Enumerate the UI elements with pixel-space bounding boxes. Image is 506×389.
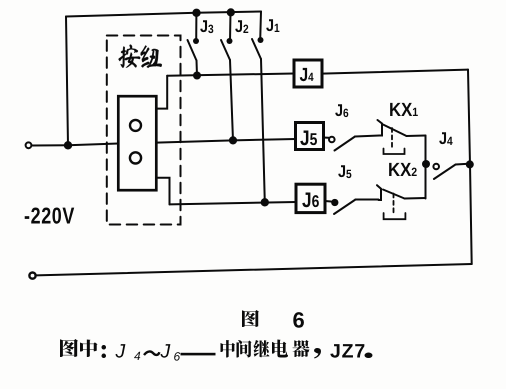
- right rail vertical: [468, 70, 472, 264]
- contact J5 blade: [334, 200, 356, 215]
- wire J4 coil to right rail: [322, 70, 468, 74]
- node J3 row1 junction: [193, 72, 201, 80]
- text figure-number 图: [242, 310, 259, 327]
- button circle 1: [130, 120, 141, 131]
- svg-text:6: 6: [293, 308, 305, 333]
- node left junction: [64, 141, 72, 149]
- svg-text:KX2: KX2: [388, 160, 417, 181]
- wire left terminal to junction: [32, 144, 68, 146]
- wire button to row1 (step up): [156, 76, 167, 109]
- wire J1 vertical to row3: [261, 59, 265, 202]
- top bus wire: [66, 12, 261, 17]
- wire J1 upper stub (corner of top bus): [259, 12, 262, 41]
- svg-text:J4: J4: [439, 129, 453, 148]
- contact J6 terminal circle: [329, 137, 335, 143]
- contact J5 terminal circle: [332, 200, 338, 206]
- wire J6 contact to KX1: [355, 136, 380, 137]
- KX2 actuator bracket: [384, 213, 406, 219]
- wire row1 bus: [167, 74, 294, 76]
- svg-text:J6: J6: [302, 189, 319, 212]
- svg-text:JZ7: JZ7: [330, 341, 366, 363]
- left vertical wire: [66, 17, 68, 146]
- node mid tap: [422, 160, 430, 168]
- text caption 中: [80, 340, 97, 358]
- text caption 中 2: [221, 340, 235, 358]
- KX2 actuator dashed link: [393, 194, 395, 213]
- svg-text:J6: J6: [335, 101, 349, 120]
- KX1 actuator bracket: [384, 149, 405, 155]
- node J3 top: [192, 9, 200, 17]
- svg-text:6: 6: [174, 350, 181, 364]
- node J2 row2 junction: [229, 136, 237, 144]
- text caption 器: [293, 340, 310, 357]
- text caption period: [364, 353, 372, 358]
- wire J6 coil stub: [325, 200, 331, 203]
- wire KX1 to mid vertical: [407, 135, 426, 138]
- text caption colon: [101, 345, 106, 358]
- contact J1 blade: [252, 39, 261, 59]
- limit switch KX2 blade: [383, 190, 405, 199]
- svg-text:J5: J5: [300, 127, 317, 150]
- node right rail tap: [466, 160, 474, 168]
- contact J2 blade: [221, 40, 230, 60]
- contact J4 terminal circle: [433, 164, 439, 170]
- text caption 继: [253, 340, 269, 357]
- wire KX2 to mid vertical: [405, 197, 426, 200]
- svg-text:J: J: [160, 341, 171, 363]
- wire row2 button to J5: [156, 139, 295, 143]
- wire J3 lower stub: [196, 61, 199, 76]
- svg-text:KX1: KX1: [389, 100, 418, 121]
- contact J2 dot: [227, 38, 233, 44]
- text caption comma: [314, 348, 321, 358]
- svg-text:J5: J5: [338, 162, 352, 181]
- limit switch KX1 blade: [383, 125, 407, 137]
- svg-text:J4: J4: [300, 65, 314, 86]
- wire J2 upper stub: [229, 12, 232, 41]
- limit switch KX1 fixed arm: [378, 120, 383, 136]
- svg-text:J3: J3: [200, 17, 214, 36]
- svg-text:J1: J1: [266, 16, 280, 35]
- svg-text:4: 4: [134, 349, 141, 363]
- wire J2 vertical to row2: [230, 60, 233, 140]
- button circle 2: [130, 152, 141, 163]
- contact J6 blade: [335, 137, 356, 151]
- contact J3 blade: [188, 40, 197, 61]
- relay coil J5 box: [296, 123, 324, 150]
- wire button to row3 (step down): [157, 178, 170, 205]
- relay coil J4 box: [294, 60, 322, 87]
- text label 纽(push-button): [141, 45, 162, 67]
- left input terminal: [26, 142, 32, 148]
- caption tilde: [144, 351, 159, 355]
- text caption 图: [60, 339, 78, 357]
- bottom rail wire: [36, 264, 472, 275]
- limit switch KX2 fixed arm: [377, 185, 381, 200]
- svg-text:J2: J2: [235, 17, 249, 36]
- relay coil J6 box: [296, 184, 325, 212]
- node J1 row3 junction: [261, 198, 269, 206]
- svg-text:-220V: -220V: [24, 203, 75, 229]
- wire junction to button box: [68, 144, 118, 146]
- KX1 actuator dashed link: [391, 128, 393, 148]
- contact J1 dot: [258, 37, 264, 43]
- svg-text:J: J: [115, 341, 126, 363]
- push-button body SB: [118, 96, 156, 190]
- text caption 间: [237, 340, 252, 357]
- wire J5 contact to KX2: [356, 199, 379, 201]
- wire row3 to J6: [170, 202, 297, 204]
- text label 按(push-button): [119, 45, 141, 68]
- contact J4 blade: [434, 164, 469, 179]
- text caption 电: [272, 340, 288, 358]
- bottom rail terminal: [29, 273, 35, 279]
- wire J5 coil stub: [323, 137, 329, 139]
- push-button dashed enclosure: [107, 36, 181, 225]
- wire J3 upper stub: [195, 13, 197, 41]
- mid vertical wire: [425, 136, 427, 199]
- contact J3 dot: [193, 38, 199, 44]
- caption long dash: [181, 353, 216, 356]
- node J2 top: [227, 8, 235, 16]
